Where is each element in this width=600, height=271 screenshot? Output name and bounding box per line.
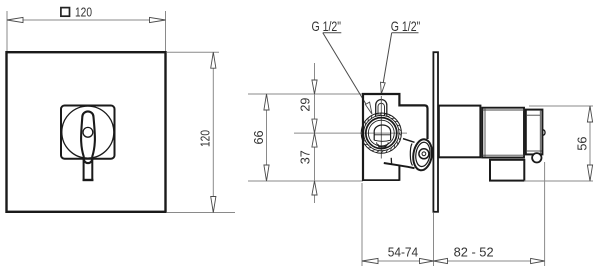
valve body outline	[363, 94, 428, 181]
outlet hub circle	[419, 149, 429, 159]
stem dome chord	[374, 134, 390, 136]
extension line top right of 120 vertical dim	[167, 51, 219, 53]
block3 side bump	[543, 130, 545, 136]
svg-text:120: 120	[75, 5, 92, 19]
arrow left of top dim	[7, 17, 23, 22]
square symbol of top dim	[61, 8, 70, 17]
extension line bottom of 120 vertical dim	[167, 212, 235, 214]
stem dome arch	[374, 125, 390, 140]
arrow bottom of v120	[211, 197, 216, 213]
arrow 82-52 right	[531, 258, 545, 263]
arrow right of top dim	[150, 17, 166, 22]
arrow top of 66	[264, 94, 269, 110]
arrow bottom 56	[587, 165, 592, 181]
svg-text:29: 29	[298, 98, 312, 112]
outlet cylinder top line	[403, 139, 415, 143]
escutcheon rounded square	[61, 106, 115, 159]
outlet cylinder left face arc	[410, 144, 412, 166]
svg-text:G 1/2": G 1/2"	[391, 18, 421, 34]
ext line 56 top	[529, 105, 593, 107]
cartridge nut circle	[366, 118, 397, 149]
arrow inside pointing down at centerline	[312, 119, 317, 133]
extension line right of top dim	[165, 11, 167, 52]
bottom ext line right (handle)	[544, 162, 546, 266]
wall plate (edge view)	[433, 52, 438, 212]
leader left G1/2	[323, 33, 371, 112]
bottom ext line middle (plate)	[433, 213, 435, 266]
outlet elbow lower silhouette	[384, 163, 415, 168]
leader right G1/2	[382, 33, 392, 90]
label right underline	[392, 32, 419, 34]
svg-text:37: 37	[298, 150, 312, 164]
block3 inner top line	[526, 114, 541, 116]
arrow 82-52 left	[434, 258, 448, 263]
arrow inside pointing up at centerline	[312, 133, 317, 147]
valve body bottom outline	[362, 179, 399, 181]
leader left arrowhead	[365, 102, 372, 114]
dimension line vertical "120"	[212, 52, 214, 212]
svg-text:56: 56	[575, 137, 589, 151]
handle cap block3	[526, 110, 543, 155]
block2 inner top line	[483, 109, 525, 111]
handle body block2	[482, 108, 524, 158]
stem lower arc	[377, 142, 389, 146]
bottom ext line left (body)	[361, 183, 363, 266]
svg-text:G 1/2": G 1/2"	[312, 18, 342, 34]
block2 inner left line	[484, 108, 486, 157]
arrow outside top at y=94 (points down)	[312, 80, 317, 94]
lever stem side view	[490, 160, 524, 181]
lever handle (front)	[81, 111, 95, 163]
escutcheon circle	[62, 106, 114, 158]
outlet hub center	[422, 152, 426, 156]
valve body bottom-right corner	[398, 166, 400, 181]
cartridge outer ring	[361, 113, 401, 153]
ext line 56 bottom	[524, 180, 593, 182]
lever stem bottom thick edge	[83, 179, 94, 181]
lever tip arc inside stem	[84, 159, 93, 163]
dimension line "29"/"37"	[314, 63, 316, 203]
lever stem (front)	[84, 158, 93, 181]
knurl ticks	[361, 113, 401, 153]
outlet elbow step line	[390, 158, 392, 164]
label left underline	[323, 32, 342, 34]
dimension line 56	[589, 106, 591, 181]
arrow top 56	[587, 106, 592, 122]
extension line body top (y=94)	[248, 93, 362, 95]
extension line left of top dim	[6, 11, 8, 52]
trim sleeve block1	[439, 106, 481, 158]
dimension line top "120"	[7, 19, 166, 21]
top port tube outer	[376, 99, 387, 116]
bottom dimension line	[362, 260, 545, 262]
extension line body bottom (y=181)	[248, 180, 363, 182]
block2 inner bottom line	[483, 154, 525, 156]
svg-text:82 - 52: 82 - 52	[454, 245, 494, 259]
outlet flange outer ellipse	[411, 138, 434, 171]
lever hub small circle	[83, 127, 93, 137]
arrow 54-74 right	[420, 258, 434, 263]
svg-text:120: 120	[198, 130, 212, 147]
arrow 54-74 left	[362, 258, 378, 263]
arrow outside bottom at y=181 (points up)	[312, 181, 317, 195]
block3 inner right line	[539, 110, 541, 154]
top port tube inner	[378, 103, 385, 116]
svg-text:54-74: 54-74	[388, 245, 419, 259]
svg-text:66: 66	[252, 130, 266, 144]
block3 inner bottom line	[526, 150, 542, 152]
arrow top of v120	[211, 52, 216, 68]
extension line centerline (y=133.1)	[294, 132, 407, 134]
handle button	[532, 153, 541, 162]
outlet flange inner ellipse	[414, 141, 431, 167]
cartridge knurl inner ring	[364, 115, 399, 150]
stem dome lower curve	[374, 140, 390, 141]
cartridge inner circle	[368, 120, 394, 146]
cartridge vertical centerline	[380, 96, 382, 159]
front plate square	[7, 52, 166, 212]
dimension line "66"	[266, 94, 268, 181]
stem tip trapezoid	[378, 144, 386, 147]
leader right arrowhead	[381, 82, 386, 94]
arrow bottom of 66	[264, 165, 269, 181]
